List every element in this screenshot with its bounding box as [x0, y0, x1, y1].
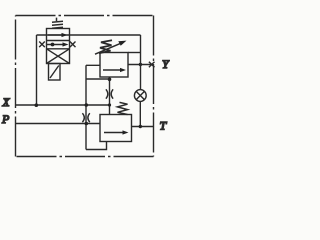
wire: branch link left to pilot line [86, 78, 110, 80]
closed port mark right of V1 [70, 42, 76, 48]
wire: V2 top link to right drop line [128, 52, 141, 54]
spring (proportional pilot valve) [52, 18, 63, 29]
wire: X pilot line (port X to pilot-supply vertical) [16, 104, 110, 106]
node: branch junction below V2 [108, 78, 112, 82]
proportional solenoid below V1 [49, 64, 61, 81]
valve V2 internal flow arrow [103, 69, 122, 71]
valve V3 internal flow arrow [104, 132, 125, 134]
valve V1 body (proportional pressure pilot valve) [47, 29, 70, 64]
wire: V3 bottom spring-chamber loop [86, 142, 107, 150]
svg-text:Y: Y [162, 57, 170, 71]
adjustable spring of V2 (diagonal spring with arrow) [99, 40, 112, 53]
enclosure dash-dot border [16, 16, 154, 157]
main relief valve V3 body [100, 115, 132, 142]
node: junction on T line [139, 125, 142, 128]
closed port mark left of V1 [39, 42, 45, 48]
node: X line end junction [108, 103, 111, 106]
pilot relief valve V2 body [100, 53, 128, 78]
orifice on V2 drain line [106, 89, 113, 98]
wire: V2 bottom drain vertical to main valve top [109, 77, 111, 115]
wire: right drop line upper segment [140, 35, 142, 90]
node: junction P line [85, 122, 89, 126]
valve V1 blocked position (crossed box) [47, 49, 70, 64]
svg-text:T: T [160, 119, 168, 133]
wire: T tank line (main valve outlet to port T) [132, 126, 154, 128]
node: junction X line [85, 103, 89, 107]
wire: V2 left port line down to X line, orifice and P junction, loop to main valve bottom [86, 65, 100, 149]
wire: left pilot feedback vertical (valve left port down to X line) [36, 35, 38, 105]
valve V1 middle flow line with arrow [47, 44, 65, 46]
wire: top flow line from proportional valve to right drop [37, 34, 141, 36]
node: junction on X line at left feedback [35, 103, 39, 107]
valve V1 top flow arrow [48, 34, 64, 36]
valve V1 section divider upper [47, 40, 70, 42]
node: junction Y-line / right drop [139, 63, 142, 66]
orifice on pilot line above P junction [82, 113, 89, 122]
valve V1 section divider lower [47, 48, 70, 50]
spring (main relief valve) [118, 102, 128, 114]
gauge/plug symbol (circle with cross) [134, 90, 146, 102]
svg-text:X: X [2, 97, 11, 109]
svg-text:P: P [1, 112, 10, 126]
wire: right drop line lower segment [139, 101, 141, 126]
wire: V2 drain to port Y [128, 64, 153, 66]
wire: P pressure line (port P to main valve inlet) [16, 123, 101, 125]
plugged crossing at port Y on border [149, 62, 155, 68]
